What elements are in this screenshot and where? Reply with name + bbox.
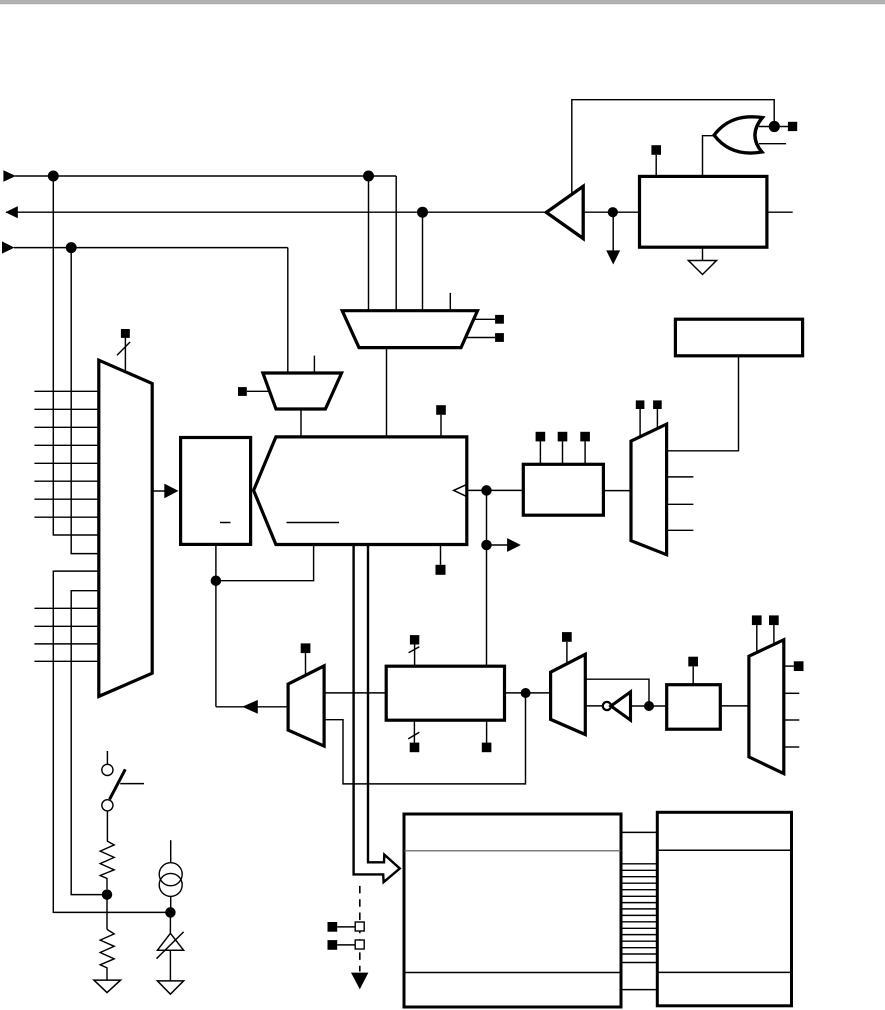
mux M4 right stubs (667, 477, 694, 530)
or-gate G1 (714, 117, 762, 153)
wire TCNT bottom to M5 net (216, 545, 314, 581)
wire corner down to mux M3 top (287, 248, 289, 373)
pin square below U3 right (482, 743, 492, 753)
stubs control squares into mux M4 (640, 409, 657, 438)
wire oscillator feedback (572, 100, 774, 196)
node clkI/O input arrow (3, 170, 15, 182)
mux M1 input stubs lower group (34, 608, 98, 661)
pin square right of M7 (794, 661, 804, 671)
junction on second input (66, 242, 77, 253)
control square above mux M6 (562, 632, 572, 642)
wire mux M1 input to lower-left net B (71, 591, 107, 895)
wire mux M2 right to control square 2 (465, 337, 495, 339)
mux M7 right selector (749, 640, 784, 774)
control box U3 (386, 666, 504, 720)
stub U3 bottom 1 (413, 720, 415, 742)
stub mux M2 input 4 (449, 293, 451, 311)
wire I1 to node dot2 (170, 896, 172, 912)
stub control square into M5 (305, 653, 307, 676)
control square above mux M5 (301, 643, 311, 653)
control squares above mux M4 (636, 400, 662, 409)
slash on U3 bottom stub (408, 732, 419, 739)
control square 1 of mux M2 (495, 315, 504, 324)
switch SW1 side stub (120, 783, 144, 785)
control square above U6 (688, 657, 698, 667)
junction on clkI/O above mux M2 (363, 171, 374, 182)
junction node dot1 (102, 889, 113, 900)
junction node dot2 (165, 907, 176, 918)
wire mux M2 right to control square 1 (474, 318, 496, 320)
wire clock stub into mux M1 (124, 338, 126, 372)
wire M6 input inverted stub (585, 705, 603, 707)
pin square above U1 (651, 145, 661, 155)
resistor R2 (100, 929, 114, 980)
inverter bubble of U5 (603, 702, 611, 710)
wire B1-B2 bottom connector (621, 989, 657, 991)
junction before U5 (644, 701, 654, 711)
jumper open square 1 (355, 922, 364, 931)
wire corner to mux M5 output (216, 706, 288, 708)
control square below TCNT (436, 565, 446, 575)
wire junction down stub (612, 212, 614, 251)
stub control square into M6 (566, 642, 568, 664)
wire U1 right stub (767, 211, 793, 213)
wire mux M3 output down to TCNT top (300, 409, 302, 437)
switch SW1 lever (110, 769, 126, 799)
wire from junction down to mux M1 input (71, 248, 99, 554)
control squares above mux M7 (752, 615, 779, 625)
slash through diode D1 (157, 932, 184, 959)
node second input arrow (2, 241, 14, 253)
wire dot1 to resistor R2 (106, 895, 108, 930)
wire output line to inverter U2 (6, 211, 546, 213)
wire U6 to mux M7 (720, 705, 749, 707)
wire SW1 to resistor R1 (106, 811, 108, 841)
arrowhead of dashed net (351, 973, 368, 990)
wire G1 input 1 stub (759, 126, 788, 128)
pin square jumper 2 (328, 940, 338, 950)
wire junction down to mux M2 input 1 (368, 176, 370, 311)
stub U1 to ground (702, 247, 704, 260)
mux M5 trapezoid (288, 666, 324, 746)
label dash inside REG1 (220, 522, 231, 524)
wire G1 output to oscillator box (703, 136, 715, 177)
fat bus arrow TCNT to waveform block (354, 546, 400, 882)
pin square TOSC1 (788, 122, 797, 131)
wire mux M4 to block U4 (667, 356, 739, 451)
wire U5 input from node (631, 705, 667, 707)
stubs control squares into REG2 (540, 441, 585, 464)
junction at G1 input 1 (769, 121, 780, 132)
arrowhead into register REG1 (164, 484, 178, 499)
divider lines inside B1 (404, 851, 621, 973)
wire U3 output to mux M6 (505, 692, 551, 694)
junction after U2 (608, 207, 618, 217)
wire junction down to control box U3 (486, 545, 488, 666)
junction under REG1 (211, 575, 222, 586)
slash clock marker on mux M1 stub (117, 342, 130, 355)
wire dot2 to diode D1 (169, 912, 171, 933)
compare register REG2 box (523, 464, 603, 515)
current source I1 top stub (170, 840, 172, 863)
register block box B2 (657, 812, 791, 1006)
wire mux M1 input to lower-left net A (53, 571, 170, 912)
pin square below U3 left (410, 743, 420, 753)
junction on TCNT-REG2 wire (481, 485, 492, 496)
diode D1 (157, 933, 183, 950)
wire M5 input 2 loop (324, 693, 525, 784)
arrowhead down after U2 (606, 250, 620, 264)
wire from left junction down to mux M1 input (53, 176, 99, 535)
arrowhead on M5 output (left) (242, 700, 258, 714)
stub square into U3 top (414, 645, 416, 667)
stub control square into TCNT top (440, 415, 442, 437)
slash on U3 top stub (409, 647, 420, 653)
wire TCNT to compare register REG2 (467, 489, 524, 491)
wire junction down to mux M2 input 3 (422, 212, 424, 311)
wire REG1 bottom down (215, 544, 217, 706)
junction on output line above mux M2 (417, 207, 428, 218)
wire second input horizontal (14, 247, 288, 249)
arrowhead flag output (507, 538, 521, 552)
wire D1 to ground (169, 950, 171, 981)
resistor R1 (100, 841, 114, 889)
mux M1 input stubs upper group (34, 391, 98, 517)
wire REG2 to mux M4 (603, 490, 630, 492)
junction at flag output (481, 540, 492, 551)
wire U2 to oscillator box (583, 211, 639, 213)
block U4 box top right (675, 319, 802, 356)
stub M7 to pin square (784, 665, 794, 667)
mux M1 tall left selector (99, 360, 152, 696)
stub square into U1 (655, 155, 657, 177)
stubs control squares into M7 (757, 625, 774, 653)
wire jumper 2 (337, 944, 355, 946)
divider lines inside B2 (657, 850, 791, 972)
mux M6 trapezoid (551, 654, 586, 734)
control square 2 of mux M2 (495, 333, 504, 342)
node output arrow (left-pointing) (5, 206, 17, 218)
control square of mux M3 (238, 387, 247, 396)
wire M6 input direct (bypass) (585, 679, 649, 706)
switch SW1 top stub (106, 751, 108, 764)
wire control square to mux M3 (247, 390, 270, 392)
stub square into U6 (692, 666, 694, 684)
oscillator box U1 (640, 176, 767, 247)
count input wedge on TCNT right edge (454, 484, 467, 496)
mux M2 trapezoid (342, 311, 477, 348)
wire G1 input 2 stub (759, 143, 786, 145)
junction on clkI/O at left (48, 171, 59, 182)
inverter U5 (611, 692, 631, 720)
wire B1-B2 top connector (621, 831, 657, 833)
wire mux M2 output down to TCNT top (386, 348, 388, 437)
inverter U2 (546, 186, 583, 238)
control square above U3 (410, 635, 419, 644)
wire junction down to flag output (486, 490, 488, 545)
bus between B1 and B2 (621, 864, 657, 963)
register REG1 box (181, 438, 251, 545)
stub TCNT bottom to square (440, 545, 442, 565)
jumper open square 2 (355, 940, 364, 949)
wire mux M1 output to register REG1 (152, 490, 170, 492)
stub U3 bottom 2 (486, 720, 488, 742)
wire jumper 1 (337, 926, 355, 928)
wire clkI/O corner down to mux M2 input 2 (395, 176, 397, 311)
dashed net to pin arrow (359, 886, 361, 972)
wire M5 input 1 from U3 (324, 692, 386, 694)
stub mux M3 input 2 (313, 356, 315, 373)
ground under U1 (688, 261, 716, 275)
current source I1 (159, 863, 182, 897)
counter TCNT pointed box (254, 437, 467, 545)
label dash inside TCNT (287, 522, 340, 524)
switch SW1 contact circles (102, 764, 113, 811)
wire flag output stub (487, 544, 509, 546)
control squares above REG2 (536, 432, 590, 442)
mux M4 right selector (631, 424, 667, 555)
pin square jumper 1 (328, 922, 338, 932)
wire clkI/O horizontal (15, 175, 396, 177)
ground under D1 (157, 981, 183, 994)
waveform block box B1 (404, 814, 621, 1007)
ground under R2 (94, 980, 121, 993)
control square above TCNT (436, 405, 446, 415)
junction on U3 output (521, 688, 531, 698)
clock square above mux M1 (121, 329, 130, 338)
mux M3 small trapezoid (263, 373, 342, 409)
prescaler box U6 (667, 685, 721, 730)
mux M7 right stubs (784, 693, 800, 747)
